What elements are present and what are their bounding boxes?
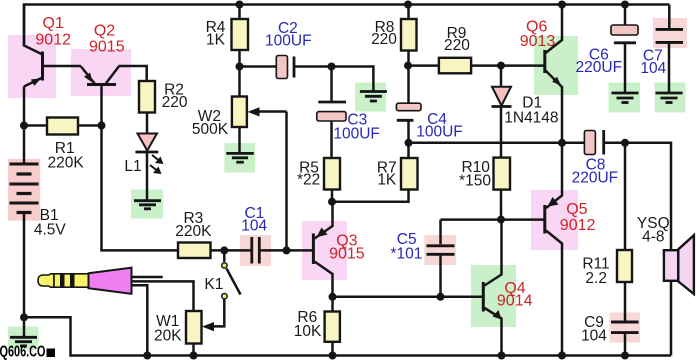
svg-text:220: 220 [444,37,470,54]
svg-text:9013: 9013 [520,33,556,50]
svg-text:220UF: 220UF [572,169,619,186]
svg-text:9015: 9015 [89,39,125,56]
svg-text:*150: *150 [459,172,491,189]
svg-text:1N4148: 1N4148 [504,109,558,126]
svg-text:104: 104 [241,218,267,235]
svg-text:500K: 500K [192,121,229,138]
svg-text:104: 104 [640,60,666,77]
svg-text:220K: 220K [175,223,212,240]
svg-text:Q606.CO: Q606.CO [0,344,46,360]
svg-text:9015: 9015 [329,246,365,263]
svg-text:9012: 9012 [35,32,71,49]
svg-text:9012: 9012 [560,217,596,234]
svg-text:4-8: 4-8 [642,228,664,245]
svg-text:20K: 20K [154,327,182,344]
svg-text:1K: 1K [377,171,397,188]
svg-text:4.5V: 4.5V [34,222,67,239]
svg-text:220: 220 [371,31,397,48]
svg-text:L1: L1 [124,158,141,175]
svg-text:10K: 10K [294,323,322,340]
svg-text:100UF: 100UF [265,33,312,50]
svg-text:2.2: 2.2 [585,270,607,287]
svg-text:104: 104 [581,327,607,344]
svg-text:220K: 220K [47,154,84,171]
svg-text:100UF: 100UF [333,125,380,142]
svg-text:Q5: Q5 [566,201,587,218]
svg-text:220UF: 220UF [576,59,623,76]
svg-text:1K: 1K [206,32,226,49]
svg-text:K1: K1 [204,276,223,293]
svg-text:Q1: Q1 [43,15,64,32]
svg-text:9014: 9014 [497,293,533,310]
svg-text:Q2: Q2 [94,23,115,40]
svg-text:*22: *22 [297,171,320,188]
svg-text:100UF: 100UF [416,124,463,141]
svg-text:*101: *101 [390,246,422,263]
svg-text:220: 220 [162,94,188,111]
